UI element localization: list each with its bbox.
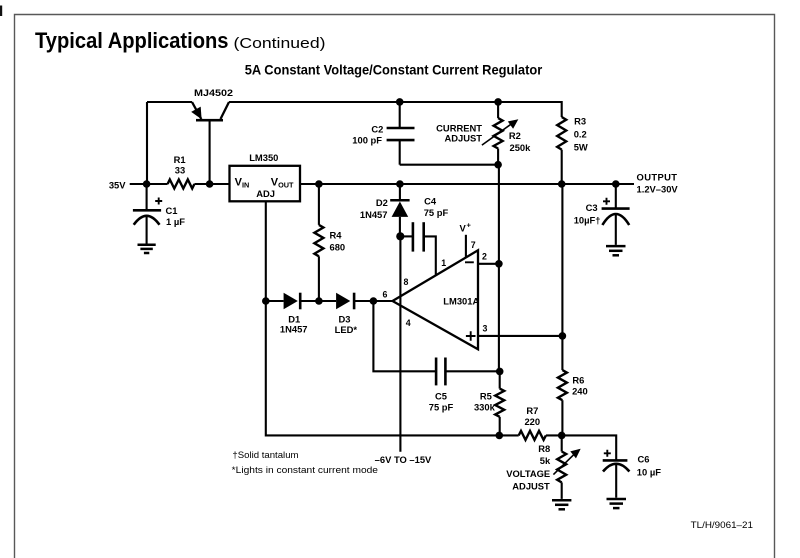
svg-text:MJ4502: MJ4502: [194, 87, 233, 98]
svg-text:C5: C5: [435, 390, 447, 401]
svg-text:75 pF: 75 pF: [424, 207, 449, 218]
svg-text:R2: R2: [509, 130, 521, 141]
svg-text:OUT: OUT: [278, 180, 294, 189]
svg-text:Typical Applications: Typical Applications: [35, 28, 229, 53]
svg-text:35V: 35V: [109, 179, 126, 190]
svg-text:7: 7: [471, 240, 476, 250]
svg-text:*Lights in constant current mo: *Lights in constant current mode: [232, 465, 378, 476]
svg-text:ADJUST: ADJUST: [444, 133, 482, 144]
svg-text:6: 6: [383, 290, 388, 300]
svg-text:R6: R6: [572, 374, 584, 385]
svg-text:(Continued): (Continued): [234, 36, 326, 52]
svg-text:IN: IN: [242, 180, 249, 189]
svg-text:R5: R5: [480, 391, 492, 402]
svg-text:330k: 330k: [474, 401, 496, 412]
svg-text:D3: D3: [339, 313, 351, 324]
svg-text:R1: R1: [174, 154, 186, 165]
svg-text:LM350: LM350: [249, 152, 278, 163]
svg-text:LM301A: LM301A: [443, 295, 479, 306]
svg-text:10µF†: 10µF†: [574, 215, 601, 226]
svg-text:R7: R7: [526, 405, 538, 416]
svg-text:ADJ: ADJ: [256, 188, 275, 199]
svg-text:R8: R8: [538, 443, 550, 454]
svg-text:V: V: [460, 223, 467, 234]
svg-text:5W: 5W: [574, 142, 588, 153]
svg-text:C2: C2: [371, 124, 383, 135]
svg-text:4: 4: [406, 318, 411, 328]
svg-text:C6: C6: [638, 454, 650, 465]
svg-text:1N457: 1N457: [280, 323, 308, 334]
svg-text:ADJUST: ADJUST: [512, 480, 550, 491]
svg-text:3: 3: [483, 324, 488, 334]
svg-text:R3: R3: [574, 116, 586, 127]
svg-text:33: 33: [175, 165, 185, 176]
svg-text:1 µF: 1 µF: [166, 216, 185, 227]
svg-text:2: 2: [482, 251, 487, 261]
svg-text:8: 8: [404, 277, 409, 287]
svg-text:75 pF: 75 pF: [429, 401, 454, 412]
svg-text:1.2V–30V: 1.2V–30V: [637, 184, 679, 195]
svg-text:220: 220: [524, 416, 540, 427]
svg-text:1N457: 1N457: [360, 209, 388, 220]
svg-text:C3: C3: [586, 202, 598, 213]
svg-text:C1: C1: [166, 205, 178, 216]
svg-text:250k: 250k: [510, 142, 532, 153]
svg-text:–6V TO –15V: –6V TO –15V: [375, 454, 432, 465]
svg-text:D2: D2: [376, 197, 388, 208]
svg-text:100 pF: 100 pF: [352, 135, 382, 146]
svg-text:5k: 5k: [540, 455, 551, 466]
svg-text:C4: C4: [424, 196, 437, 207]
svg-text:680: 680: [330, 241, 346, 252]
svg-text:R4: R4: [330, 229, 343, 240]
svg-text:+: +: [467, 221, 472, 230]
svg-text:LED*: LED*: [335, 324, 358, 335]
svg-text:240: 240: [572, 386, 588, 397]
svg-text:TL/H/9061–21: TL/H/9061–21: [691, 520, 754, 530]
svg-text:VOLTAGE: VOLTAGE: [506, 468, 550, 479]
svg-text:†Solid tantalum: †Solid tantalum: [232, 450, 298, 461]
svg-text:OUTPUT: OUTPUT: [637, 171, 678, 182]
svg-text:1: 1: [441, 258, 446, 268]
svg-text:10 µF: 10 µF: [637, 467, 661, 478]
svg-text:5A Constant Voltage/Constant C: 5A Constant Voltage/Constant Current Reg…: [245, 62, 543, 78]
svg-text:0.2: 0.2: [574, 129, 587, 140]
